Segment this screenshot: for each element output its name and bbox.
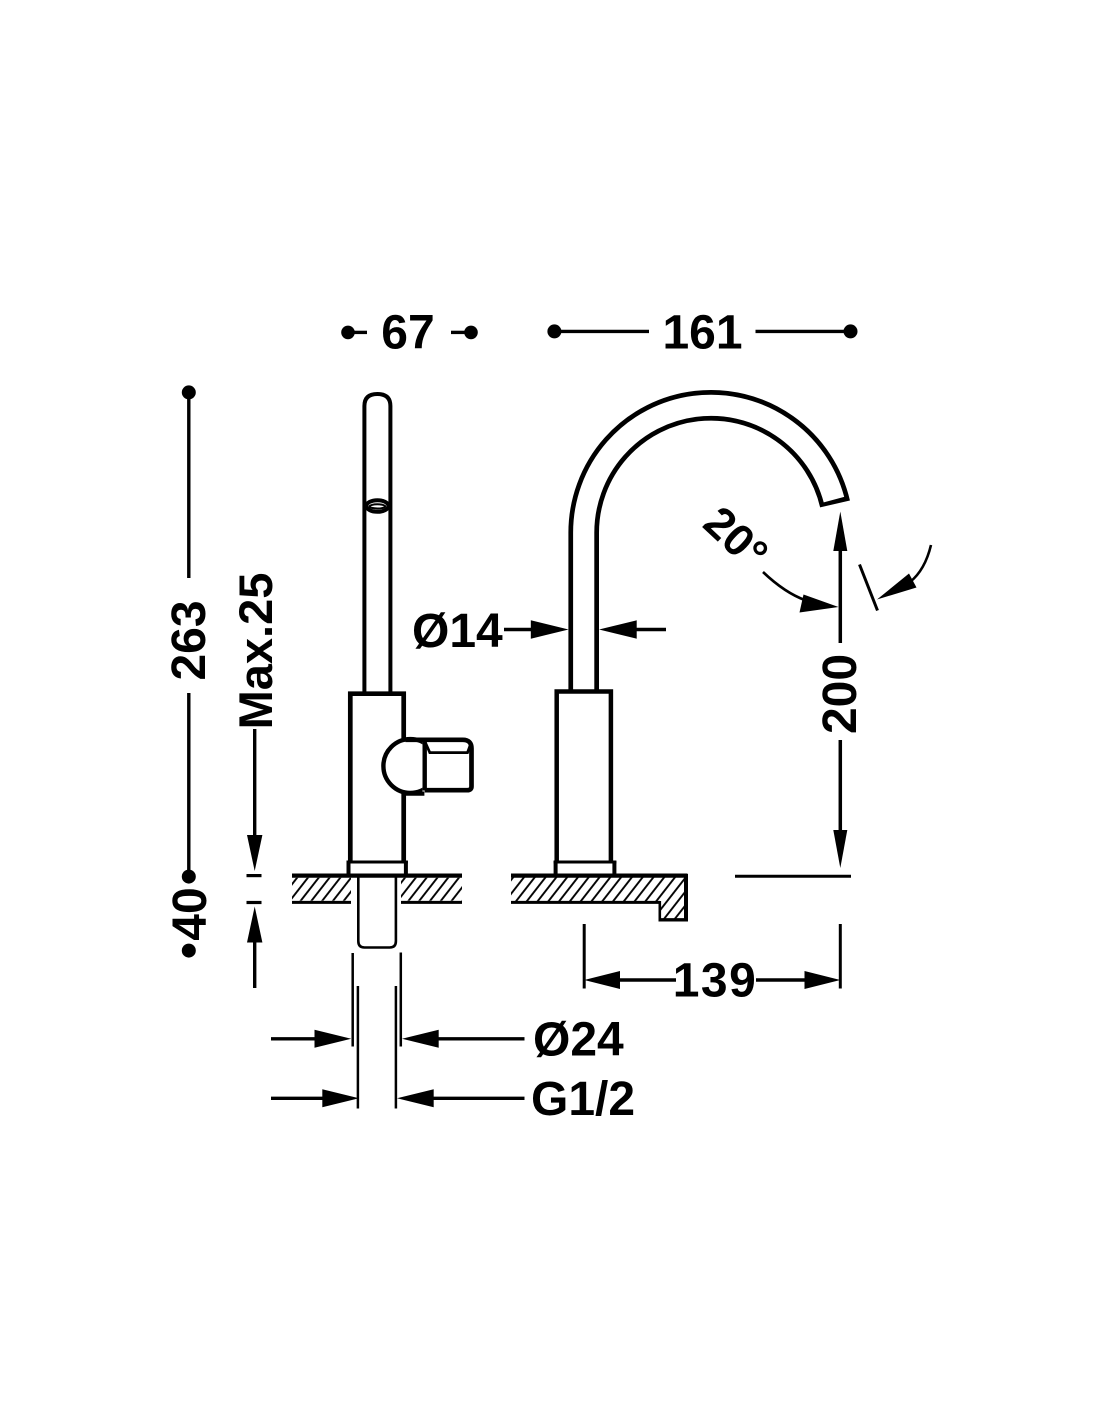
counter right slab bottom line	[511, 901, 660, 904]
dimension G1/2: left arrowhead	[322, 1089, 359, 1107]
valve neck bottom line	[406, 791, 425, 795]
counter right slab top line	[511, 873, 688, 877]
handle rod	[364, 394, 390, 694]
svg-text:161: 161	[662, 306, 742, 359]
spout base cylinder	[557, 692, 611, 863]
dimension 263/40: shared dot	[182, 870, 196, 884]
dimension 161: right line	[756, 330, 848, 333]
counter left slab bottom line	[292, 901, 351, 904]
dimension 67: left dot	[341, 326, 355, 340]
dimension 67: right stub line	[451, 331, 467, 334]
dimension O14: right shaft	[633, 628, 666, 631]
dimension 40: bottom dot	[182, 944, 196, 958]
svg-text:263: 263	[163, 600, 216, 680]
counter left slab hatch	[292, 878, 462, 901]
handle rod outlet inner ellipse	[370, 504, 386, 508]
counter right slab right edge	[684, 874, 688, 921]
dimension 161: left dot	[547, 324, 561, 338]
dimension 139: left shaft	[616, 978, 676, 981]
dimension 263: top dot	[182, 385, 196, 399]
counter left slab top line	[292, 873, 462, 877]
angle arc left arrowhead	[800, 595, 839, 613]
shank break line inner left	[357, 986, 360, 1109]
svg-text:Ø14: Ø14	[412, 605, 503, 658]
svg-text:Ø24: Ø24	[533, 1014, 624, 1067]
counter right slab step left edge	[658, 901, 661, 920]
angle arc right	[910, 545, 931, 582]
dimension Max.25: lower arrowhead (up)	[247, 907, 262, 943]
valve knob chamfer line	[426, 743, 471, 753]
dimension 200: base extension line	[735, 875, 851, 878]
dimension 161: right dot	[844, 324, 858, 338]
valve knob outline	[406, 740, 472, 790]
dimension O24: right arrowhead	[402, 1030, 439, 1048]
spout flange	[554, 861, 617, 877]
handle body	[350, 694, 403, 862]
dimension G1/2: right shaft	[430, 1097, 525, 1100]
dimension Max.25: upper tick	[247, 874, 262, 877]
svg-text:Max.25: Max.25	[229, 573, 282, 730]
dimension O14: left arrowhead	[531, 620, 569, 638]
dimension 263: upper line	[187, 396, 190, 578]
dimension 139: left extension line	[583, 924, 586, 989]
valve housing arc	[383, 739, 437, 793]
dimension O24: left shaft	[271, 1037, 318, 1040]
dimension 139: right shaft	[756, 978, 805, 981]
dimension G1/2: right arrowhead	[397, 1089, 434, 1107]
handle flange	[347, 861, 408, 877]
handle shank	[358, 876, 396, 948]
dimension 200: top arrowhead (up)	[833, 512, 847, 552]
counter right slab hatch	[511, 876, 688, 920]
dimension G1/2: left shaft	[271, 1097, 326, 1100]
dimension O14: right arrowhead	[599, 620, 637, 638]
dimension 139: right arrowhead	[805, 971, 841, 989]
svg-text:139: 139	[673, 955, 758, 1008]
dimension 139: right extension line	[839, 924, 842, 989]
dimension Max.25: upper shaft	[253, 729, 256, 838]
svg-text:67: 67	[381, 307, 434, 360]
dimension Max.25: lower tick	[247, 901, 262, 904]
dimension 200: bottom arrowhead (down)	[833, 830, 847, 868]
counter left slab hole	[351, 874, 401, 905]
dimension O24: right shaft	[435, 1037, 525, 1040]
dimension O14: left shaft	[504, 628, 535, 631]
shank break line inner right	[395, 986, 398, 1109]
dimension 139: left arrowhead	[584, 971, 620, 989]
dimension 67: left stub line	[352, 331, 367, 334]
dimension Max.25: lower shaft	[253, 940, 256, 988]
angle arc left	[763, 572, 806, 601]
valve knob fill	[422, 737, 474, 792]
svg-text:200: 200	[814, 654, 867, 734]
angle tick (20 deg ray)	[860, 565, 878, 611]
handle rod outlet ellipse	[366, 500, 388, 512]
valve knob left edge	[423, 738, 427, 791]
shank break line outer left	[351, 953, 354, 1047]
dimension 67: right dot	[464, 326, 478, 340]
counter right slab step bottom	[659, 918, 689, 921]
dimension 161: left line	[558, 330, 649, 333]
dimension 200: upper shaft	[839, 550, 843, 643]
spout tube bore	[584, 405, 834, 700]
svg-text:40: 40	[164, 887, 217, 940]
angle arc right arrowhead	[877, 574, 917, 600]
dimension O24: left arrowhead	[315, 1030, 352, 1048]
dimension 200: lower shaft	[839, 740, 843, 834]
shank break line outer right	[400, 953, 403, 1047]
svg-text:G1/2: G1/2	[531, 1073, 635, 1126]
dimension 263: lower line	[187, 693, 190, 872]
spout tube	[584, 405, 835, 700]
dimension Max.25: upper arrowhead (down)	[247, 835, 262, 871]
